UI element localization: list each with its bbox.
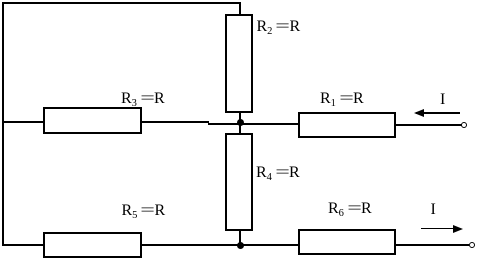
terminal: bottom-right port bbox=[469, 242, 475, 248]
arrow: current I into top port (head, pointing left) bbox=[414, 109, 424, 117]
node B junction dot bbox=[237, 242, 244, 249]
arrow: current I into top port (line) bbox=[416, 112, 460, 114]
node A junction dot bbox=[237, 119, 244, 126]
label R2 value bbox=[257, 19, 301, 35]
label R4 value bbox=[256, 165, 300, 181]
resistor R5 bbox=[43, 232, 142, 258]
label R6 value bbox=[328, 201, 372, 217]
resistor R1 bbox=[298, 112, 396, 138]
wire: lead from R2 bottom to node A bbox=[239, 111, 241, 124]
wire: bottom branch from left bus to R5 bbox=[2, 244, 44, 246]
resistor R2 bbox=[225, 14, 253, 113]
wire: left vertical bus bbox=[2, 2, 4, 246]
terminal: top-right port bbox=[461, 122, 467, 128]
arrow: current I out of bottom port (head, pointing right) bbox=[453, 225, 463, 233]
label R1 value bbox=[320, 91, 364, 107]
wire: R6 to bottom-right terminal bbox=[396, 244, 469, 246]
wire: bottom segment R5 to R6 bbox=[142, 244, 298, 246]
wire: R1 to top-right terminal bbox=[394, 124, 462, 126]
wire: middle branch from left bus to R3 bbox=[2, 121, 44, 123]
label I top current bbox=[440, 92, 445, 108]
resistor R6 bbox=[298, 229, 396, 255]
resistor R4 bbox=[225, 133, 253, 231]
wire: lead from top bus down to R2 bbox=[239, 2, 241, 16]
label R3 value bbox=[121, 91, 165, 107]
wire: top horizontal bus bbox=[2, 2, 241, 4]
resistor R3 bbox=[43, 107, 142, 134]
wire: middle segment R3 to jog bbox=[142, 121, 209, 123]
label R5 value bbox=[122, 203, 166, 219]
label I bottom current bbox=[431, 202, 436, 218]
wire: lead from node A down to R4 bbox=[239, 123, 241, 134]
wire: middle segment jog to R1 bbox=[208, 123, 298, 125]
wire: lead from R4 bottom to node B bbox=[239, 229, 241, 246]
arrow: current I out of bottom port (line) bbox=[421, 228, 453, 230]
